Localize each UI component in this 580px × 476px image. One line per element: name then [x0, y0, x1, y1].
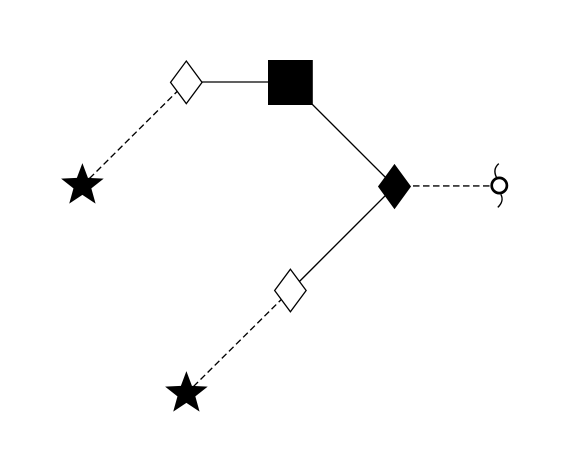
wire: dashed bond diamond1 to star1: [82, 82, 186, 185]
node: reducing end wavy line bottom arc: [498, 194, 502, 207]
node: open diamond 1 (top left): [171, 61, 203, 104]
node: reducing end wavy line top arc: [495, 164, 499, 178]
wire: dashed bond diamond2 to star2: [186, 291, 290, 394]
wire: solid bond filled diamond to diamond2: [290, 186, 394, 290]
node: reducing end circle: [492, 178, 507, 193]
node: filled black diamond: [379, 165, 411, 208]
node: open diamond 2 (bottom center): [275, 269, 307, 312]
wire: solid bond diamond1 to square: [186, 81, 290, 83]
wire: dashed bond filled diamond to reducing-end circle: [395, 185, 500, 187]
node: filled black square: [268, 60, 313, 105]
node: filled star 2 (bottom): [165, 371, 208, 412]
wire: solid bond square to filled diamond: [290, 83, 394, 187]
node: filled star 1 (left): [61, 163, 104, 204]
